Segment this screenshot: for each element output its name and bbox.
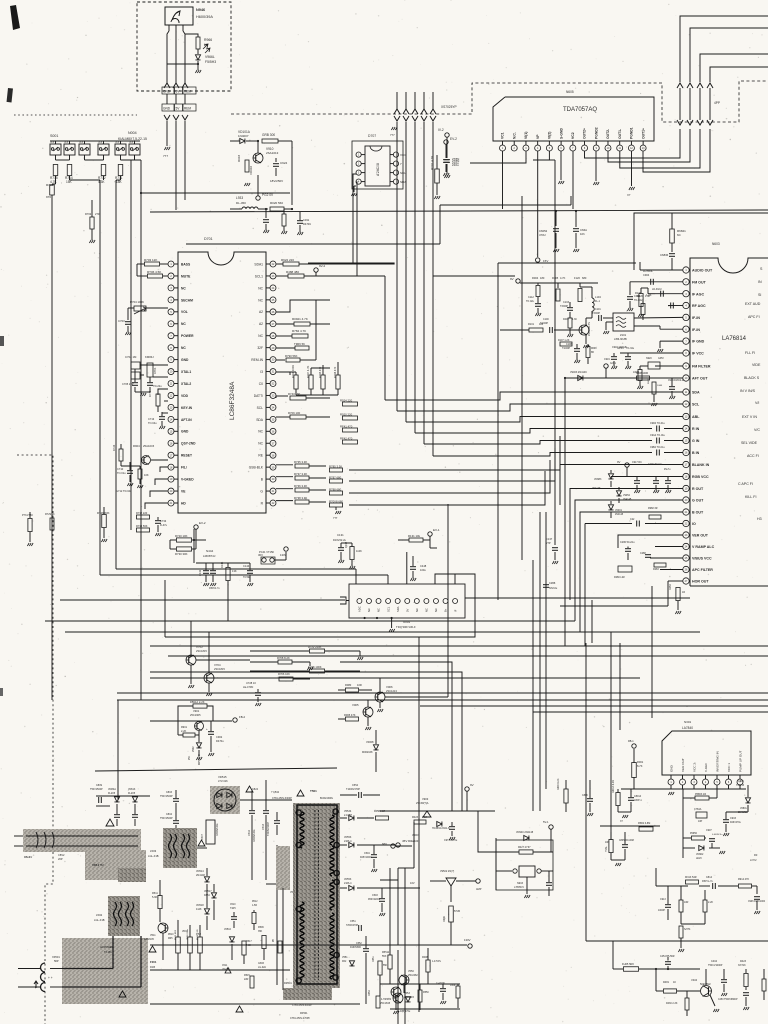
svg-text:R706 10K: R706 10K <box>278 672 290 676</box>
capacitor C008 <box>440 988 446 990</box>
svg-text:C513: C513 <box>262 823 265 830</box>
svg-text:FL205: FL205 <box>128 792 136 795</box>
svg-text:R145: R145 <box>220 561 224 568</box>
svg-text:5V-1: 5V-1 <box>543 820 549 824</box>
svg-text:VD10: VD10 <box>182 931 188 933</box>
svg-text:C22: C22 <box>630 518 635 521</box>
degauss inner lines <box>26 835 138 837</box>
test point IV-2 <box>445 133 449 137</box>
wire IO run <box>645 523 683 525</box>
diode VD518 <box>204 909 209 914</box>
wire VE pin <box>150 491 168 497</box>
G IN cap <box>664 440 683 442</box>
svg-text:C803: C803 <box>166 791 173 794</box>
svg-text:NC: NC <box>181 322 186 326</box>
resistor R253 <box>676 588 680 601</box>
AFT OUT cluster <box>565 377 683 379</box>
capacitor C728 <box>255 692 261 694</box>
svg-text:R512: R512 <box>252 901 258 903</box>
T501 winding primary <box>300 812 304 848</box>
svg-text:T1500P: T1500P <box>592 313 601 315</box>
svg-text:C8V2: C8V2 <box>58 853 65 857</box>
LA76814 pin G IN <box>683 437 689 443</box>
svg-text:R901: R901 <box>181 726 188 729</box>
wire y276 right <box>433 275 515 277</box>
wire R run <box>349 460 550 493</box>
capacitor C553 <box>358 925 360 931</box>
svg-text:130V: 130V <box>464 938 471 942</box>
resistor M313 <box>686 880 699 884</box>
MCU right pin 25 NC <box>270 297 276 303</box>
wire x419 mid vertical <box>418 637 420 1012</box>
wire band G1b <box>465 597 690 599</box>
svg-text:LE-470N: LE-470N <box>243 685 253 689</box>
svg-text:L104: L104 <box>595 295 601 299</box>
resistor RF42 <box>343 440 358 444</box>
svg-text:4148: 4148 <box>196 908 202 911</box>
capacitor C903e <box>723 819 729 821</box>
regulator V9502 <box>446 878 456 886</box>
svg-text:AFT-IN: AFT-IN <box>181 418 192 422</box>
svg-text:55X: 55X <box>382 955 387 958</box>
svg-text:N603: N603 <box>712 242 720 246</box>
wire x571 link <box>570 196 572 205</box>
tuner pin 2 NC <box>366 599 371 604</box>
svg-text:C131: C131 <box>337 533 344 537</box>
svg-text:V0008: V0008 <box>366 740 374 744</box>
MCU right pin 27 A2 <box>270 321 276 327</box>
svg-text:R737 3.3K: R737 3.3K <box>294 472 307 476</box>
ground <box>367 717 369 726</box>
svg-text:REM: REM <box>184 107 191 111</box>
wire switch stub <box>55 141 57 144</box>
svg-text:220P-1: 220P-1 <box>634 799 642 802</box>
wire IF GND pin <box>660 340 683 342</box>
resistor R711 <box>118 165 123 176</box>
svg-text:R708 8-2K: R708 8-2K <box>277 656 290 660</box>
svg-text:R5R2 6-8M: R5R2 6-8M <box>638 822 650 825</box>
MCU right pin 30 REM-IN <box>270 357 276 363</box>
connector plug row <box>164 83 170 88</box>
svg-text:C8014: C8014 <box>634 795 642 798</box>
resistor R130 <box>639 294 643 307</box>
wire v901 rail <box>150 720 232 722</box>
LA76814 pin APC FILTER <box>683 566 689 572</box>
capacitor C5x8 <box>274 820 280 822</box>
test point EV-2 <box>444 140 448 144</box>
svg-text:LGL-F1B: LGL-F1B <box>148 854 159 858</box>
svg-text:10P: 10P <box>698 820 703 823</box>
capacitor C605 <box>555 211 557 226</box>
MCU right pin 31 I3 <box>270 369 276 375</box>
svg-text:SCL: SCL <box>692 403 700 407</box>
diode VD514 <box>204 877 209 882</box>
crystal cluster C704 <box>131 362 140 369</box>
svg-text:LM0874J: LM0874J <box>203 554 216 558</box>
transformer L503 stipple <box>163 828 197 868</box>
resistor R551 <box>378 961 382 975</box>
LA76814 pin R OUT <box>683 485 689 491</box>
capacitor C288 GAMA <box>543 584 549 586</box>
svg-text:DR501: DR501 <box>284 982 292 985</box>
resistor R023 <box>414 820 426 824</box>
svg-text:R020 560: R020 560 <box>270 201 283 205</box>
svg-text:RF42 470: RF42 470 <box>340 436 353 440</box>
switch S001-5 <box>115 144 126 155</box>
wire speaker L1 <box>680 16 768 79</box>
svg-text:R430 2-3K: R430 2-3K <box>666 1002 678 1005</box>
svg-text:D400V100u: D400V100u <box>253 829 256 842</box>
svg-text:FH05 5R0: FH05 5R0 <box>622 962 634 966</box>
svg-text:D-47u: D-47u <box>160 523 168 527</box>
wire APC FILTER <box>660 569 683 571</box>
svg-text:1N4007: 1N4007 <box>238 134 249 138</box>
diode VD940 <box>524 835 529 840</box>
scan mark <box>10 5 20 30</box>
wire y244 <box>186 243 440 245</box>
svg-text:100R: 100R <box>657 385 663 387</box>
capacitor C705 <box>132 382 138 384</box>
resistor R703 <box>145 262 160 266</box>
svg-text:OUT1+: OUT1+ <box>641 128 645 139</box>
svg-text:V0813: V0813 <box>128 788 136 791</box>
wire n903 left rail <box>495 838 497 890</box>
wire SAW gnd <box>606 321 613 323</box>
wire FIL pin <box>160 467 168 472</box>
svg-text:1-3K: 1-3K <box>646 293 652 297</box>
capacitor C554 <box>358 792 360 798</box>
svg-text:LGL-F1B: LGL-F1B <box>94 918 105 922</box>
resistor R701 <box>435 169 440 183</box>
resistor R914 <box>739 884 752 888</box>
crystal X701 <box>147 363 153 377</box>
svg-text:C031: C031 <box>303 218 310 222</box>
wire V512 base <box>266 883 279 885</box>
resistor R729 <box>50 518 54 530</box>
resistor R722 <box>310 649 325 653</box>
svg-text:EA18105: EA18105 <box>144 938 155 941</box>
diode VD00x <box>405 997 410 1002</box>
svg-text:GND: GND <box>163 107 171 111</box>
svg-text:FB91A 2-2K: FB91A 2-2K <box>190 700 205 704</box>
capacitor C8014 <box>628 797 634 799</box>
wire stair6 <box>433 453 652 457</box>
capacitor C907b <box>709 838 715 840</box>
svg-text:R966: R966 <box>204 38 212 42</box>
svg-text:C705 22P: C705 22P <box>122 382 134 386</box>
resistor R718 <box>50 185 55 195</box>
svg-text:9V: 9V <box>617 460 621 464</box>
svg-text:SDA: SDA <box>256 418 264 422</box>
svg-text:FIL/: FIL/ <box>181 466 187 470</box>
svg-text:R023: R023 <box>412 816 419 819</box>
svg-text:V753: V753 <box>196 645 203 649</box>
resistor R921b <box>294 322 310 326</box>
resistor R785 <box>330 468 343 472</box>
wire mid to tuner <box>193 529 195 540</box>
svg-text:RF41 470: RF41 470 <box>340 424 353 428</box>
svg-text:2-2K: 2-2K <box>181 730 187 733</box>
resistor R791 <box>309 375 313 389</box>
svg-text:VER OUT: VER OUT <box>692 534 709 538</box>
IR receiver N946 box <box>165 7 193 25</box>
EEPROM body A24C08 <box>365 146 390 186</box>
svg-text:NC: NC <box>258 298 263 302</box>
dotted boundary line right <box>231 81 768 122</box>
wire EEPROM SCL down <box>356 182 357 276</box>
wire band H2 <box>168 655 768 657</box>
T501 pins <box>296 810 301 815</box>
LA76814 pin AFT OUT <box>683 375 689 381</box>
resistor P0950 <box>692 836 705 840</box>
wire to R966 <box>185 34 198 37</box>
svg-text:T1000P: T1000P <box>540 323 549 325</box>
svg-text:V511: V511 <box>150 934 156 937</box>
wire B+ top <box>278 140 292 142</box>
transistor V434 <box>701 986 712 997</box>
ground <box>335 507 337 510</box>
capacitor C142 <box>210 570 216 572</box>
mains wires <box>18 968 41 970</box>
svg-text:SI: SI <box>758 293 761 297</box>
svg-text:P731 53K: P731 53K <box>22 514 33 517</box>
diode V5533 <box>349 842 354 847</box>
svg-text:SDA1: SDA1 <box>254 262 263 266</box>
resistor R517 <box>242 941 246 955</box>
svg-text:L7805CV: L7805CV <box>514 886 524 889</box>
capacitor C710 <box>127 470 133 472</box>
wire pin2 down <box>682 789 684 858</box>
svg-text:R481: R481 <box>663 981 670 984</box>
resistor R736 <box>295 476 309 480</box>
MCU left pin 16 QSY-2ND <box>168 440 174 446</box>
wire switch bottoms <box>55 155 57 160</box>
wire keyboard columns <box>55 176 57 184</box>
tuner pin 6 5V <box>405 599 410 604</box>
wire x498 down <box>497 263 499 600</box>
svg-text:VCC 2: VCC 2 <box>692 763 696 772</box>
svg-text:R703 12K: R703 12K <box>144 258 157 262</box>
svg-text:C914 D16V2-2u: C914 D16V2-2u <box>668 380 685 382</box>
svg-text:C504: C504 <box>364 852 370 855</box>
dashed remote-control box outline <box>137 2 231 91</box>
svg-text:C0: C0 <box>259 382 263 386</box>
resistor R793 <box>336 375 340 389</box>
svg-text:F120: F120 <box>574 276 580 280</box>
svg-text:NC: NC <box>258 430 263 434</box>
wire IR pins down <box>168 25 170 31</box>
svg-text:R510 M05: R510 M05 <box>175 929 177 940</box>
svg-text:R736 3.3K: R736 3.3K <box>294 484 307 488</box>
resistor R918 <box>245 160 249 172</box>
svg-text:R730 30K: R730 30K <box>175 552 188 556</box>
capacitor C507 <box>206 820 215 844</box>
ground <box>208 683 210 692</box>
svg-text:FM FILTER: FM FILTER <box>692 365 711 369</box>
wire vert x586 <box>585 643 587 941</box>
wire blank run <box>349 471 545 505</box>
wire right vert x611 <box>610 632 612 758</box>
svg-text:KILL FI: KILL FI <box>745 495 756 499</box>
svg-text:LTV-316: LTV-316 <box>218 779 228 783</box>
svg-text:TSSL: TSSL <box>606 846 608 852</box>
svg-text:FB511: FB511 <box>382 951 390 954</box>
svg-text:TO-34u: TO-34u <box>626 347 635 350</box>
svg-text:N301: N301 <box>684 720 692 724</box>
svg-text:R0921 4.7K: R0921 4.7K <box>292 317 308 321</box>
wire psu middles <box>206 868 208 876</box>
svg-text:D16V22.2u: D16V22.2u <box>333 538 347 542</box>
ground <box>190 665 192 684</box>
svg-text:GSB-BLK: GSB-BLK <box>249 466 264 470</box>
svg-text:R785 3.3K: R785 3.3K <box>329 464 342 468</box>
svg-text:N908 100R: N908 100R <box>636 372 648 375</box>
wire horizontal in box <box>167 63 198 65</box>
svg-text:C554: C554 <box>352 784 359 787</box>
svg-text:1.3K: 1.3K <box>572 318 577 321</box>
svg-text:VD514: VD514 <box>196 870 204 873</box>
svg-text:R553: R553 <box>368 990 371 996</box>
svg-text:N920: N920 <box>646 357 652 360</box>
diode V551 <box>349 961 354 966</box>
warning triangle7 <box>297 790 304 796</box>
EEPROM pin 2 <box>356 161 361 166</box>
svg-text:VD8-2 TH: VD8-2 TH <box>92 863 104 867</box>
LA76814 pin HOR OUT <box>683 578 689 584</box>
wire IF AGC <box>655 293 683 295</box>
resistor R733 <box>137 528 150 532</box>
dotted boundary line <box>14 114 137 116</box>
B IN cap <box>664 452 683 454</box>
T501 winding sec1 <box>330 815 334 845</box>
svg-text:VI(1): VI(1) <box>524 132 528 139</box>
svg-text:VDD: VDD <box>181 394 189 398</box>
svg-text:VD518: VD518 <box>196 904 204 907</box>
vertical IC N301 LA7840 <box>662 731 751 775</box>
svg-text:LA7840: LA7840 <box>682 726 693 730</box>
svg-text:G IN: G IN <box>692 439 700 443</box>
warning triangle6 <box>236 1006 243 1012</box>
wire PGND2 <box>595 151 597 181</box>
svg-text:R924 220: R924 220 <box>340 398 353 402</box>
wire IF stub <box>454 574 456 584</box>
resistor R5R2 <box>639 827 653 831</box>
diode HC384 <box>437 821 442 826</box>
svg-text:VD902: VD902 <box>696 853 704 856</box>
resistor R921 <box>282 214 286 226</box>
svg-text:5-6K: 5-6K <box>152 896 158 899</box>
svg-text:DL-450: DL-450 <box>236 201 246 205</box>
svg-text:D400V100u: D400V100u <box>216 823 219 836</box>
svg-text:10R: 10R <box>357 683 362 687</box>
svg-text:C404: C404 <box>711 960 718 963</box>
svg-text:N444: N444 <box>206 549 214 553</box>
svg-text:EV-2: EV-2 <box>199 521 206 525</box>
resistor R966 <box>196 37 200 49</box>
svg-text:V0553: V0553 <box>344 836 352 839</box>
terminal 9V IF <box>516 279 520 283</box>
resistor R553 <box>376 996 380 1008</box>
svg-text:R9023: R9023 <box>648 377 650 384</box>
ground <box>164 147 170 150</box>
wire band I4 <box>420 705 768 707</box>
resistor R9023 <box>652 382 656 394</box>
svg-text:C713: C713 <box>148 417 155 421</box>
svg-text:DATT/: DATT/ <box>254 394 263 398</box>
volume cluster R704 <box>134 306 146 311</box>
wire band H1 <box>150 645 768 647</box>
svg-text:110K: 110K <box>356 549 362 553</box>
capacitor C931 <box>265 209 267 218</box>
video IC N501 LA76814 body <box>690 258 768 586</box>
capacitor C906b <box>754 896 760 898</box>
svg-text:R OUT: R OUT <box>692 487 704 491</box>
wire reg verticals <box>397 868 399 945</box>
svg-text:RF AGC: RF AGC <box>692 304 706 308</box>
svg-text:R001: R001 <box>637 760 644 764</box>
svg-text:GND: GND <box>181 358 189 362</box>
svg-text:A2: A2 <box>259 322 263 326</box>
resistor R506 <box>262 936 266 949</box>
MCU left pin 10 XTAL1 <box>168 369 174 375</box>
terminal 5V-1 <box>549 825 553 829</box>
resistor R550 <box>418 990 422 1002</box>
resistor R919 <box>262 139 278 143</box>
MCU right pin 23 SCL1 <box>270 273 276 279</box>
svg-text:C918 1000UF: C918 1000UF <box>612 346 627 349</box>
EEPROM pin 8 <box>393 179 398 184</box>
wire band G3 <box>65 631 700 633</box>
wire stair5 <box>424 441 652 445</box>
svg-text:EV-1: EV-1 <box>433 528 440 532</box>
svg-text:45u7u: 45u7u <box>664 469 671 471</box>
wire bigblock path2 <box>62 986 141 988</box>
transistor V706 <box>142 456 151 465</box>
svg-text:4-8K: 4-8K <box>246 944 251 947</box>
capacitor C513 <box>263 810 269 812</box>
svg-text:FR2: FR2 <box>342 961 347 963</box>
svg-text:4-7K: 4-7K <box>381 999 386 1001</box>
wire B G R pins to resistors <box>276 464 293 466</box>
svg-text:45V: 45V <box>402 839 407 843</box>
svg-text:IN: IN <box>758 280 762 284</box>
tuner pin 11 IF <box>453 599 458 604</box>
MCU right pin 32 C0 <box>270 381 276 387</box>
svg-text:KM84J: KM84J <box>145 355 154 359</box>
LA76814 pin IF-IN <box>683 314 689 320</box>
LA76814 pin IO <box>683 520 689 526</box>
svg-text:GPM: GPM <box>658 357 663 360</box>
svg-text:C450 T500V6800P: C450 T500V6800P <box>718 999 738 1001</box>
tuner pin 10 B+ <box>443 599 448 604</box>
svg-text:V9052: V9052 <box>623 494 631 497</box>
resistor R005 <box>346 717 359 721</box>
diode VD008 <box>373 745 378 750</box>
svg-text:R702: R702 <box>85 212 92 216</box>
svg-text:CT81-250V-470PF: CT81-250V-470PF <box>290 1017 310 1020</box>
svg-text:C9B4 TO-01u: C9B4 TO-01u <box>650 446 665 449</box>
svg-text:+: + <box>206 727 208 731</box>
resistor R922 <box>283 262 299 266</box>
svg-text:BASS: BASS <box>181 262 191 266</box>
svg-text:NC: NC <box>258 442 263 446</box>
wire right vert x620 <box>619 643 621 730</box>
MCU right pin 36 NC <box>270 428 276 434</box>
FM FILTER components <box>655 365 683 367</box>
capacitor C784A <box>696 812 707 818</box>
transistor V005 <box>363 707 373 717</box>
svg-text:777: 777 <box>333 516 338 520</box>
